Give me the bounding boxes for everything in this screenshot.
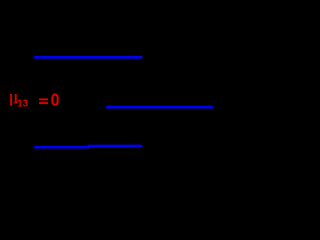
svg-text:13: 13 [17,98,29,109]
label mu_13 = 0 [10,94,57,109]
level |1b> (lower state, right segment, slightly higher) [88,145,142,148]
level |2> (middle state, right) [106,106,213,109]
level |1a> (lower state, left segment) [34,146,90,149]
level |3> (upper state) [34,56,142,59]
